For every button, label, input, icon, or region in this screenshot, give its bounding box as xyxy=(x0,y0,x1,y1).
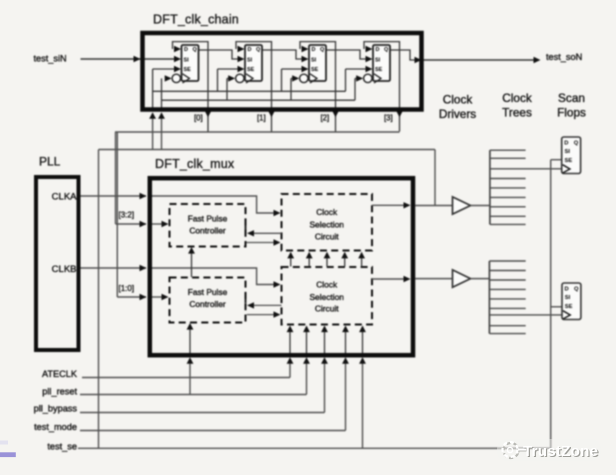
flip-flop U4 D-loop wire xyxy=(364,42,400,50)
wire test_siN input xyxy=(81,58,179,60)
wire SE feed to U3 xyxy=(281,69,283,91)
wire pll_reset riser inside mux to FPC2 xyxy=(189,329,191,355)
wire tap [3] from Q4 xyxy=(399,50,401,132)
wire scan link Q1 to SI of U2 xyxy=(208,50,239,59)
wire CSC1 to FPC1 feedback xyxy=(252,232,282,234)
clock tree 2 spine xyxy=(488,261,490,334)
Clock Selection Circuit 1 box xyxy=(282,194,373,251)
wire test_mode riser into mux xyxy=(345,363,347,431)
wire CSC2 output xyxy=(372,278,405,280)
clock tree 1 spine xyxy=(489,150,491,224)
wire clock feed to U1 xyxy=(165,75,172,81)
flip-flop scan FF2 body xyxy=(562,283,581,320)
PLL box xyxy=(36,177,79,350)
flip-flop scan FF1 body xyxy=(562,137,581,174)
wire CLKB inside mux to CSC2 xyxy=(151,268,275,285)
wire tap rail [3:2] (y=132) xyxy=(115,131,400,133)
wire Q2 output xyxy=(262,49,272,51)
wire Q1 output xyxy=(199,49,209,51)
wire mux output 1 to driver xyxy=(415,205,453,207)
watermark TrustZone logo xyxy=(501,441,520,460)
wire FPC1 to CSC1 control xyxy=(246,242,274,244)
wire CLKA inside mux to CSC1 xyxy=(151,196,275,213)
wire FPC2 to FPC1 sync arrow xyxy=(191,253,193,278)
progress bar xyxy=(0,452,16,457)
wire Q4 output xyxy=(390,49,400,51)
wire test_mode xyxy=(80,430,346,432)
wire driver 2 to tree xyxy=(471,278,490,280)
wire SE distribution rail xyxy=(153,90,346,92)
chain box DFT_clk_chain xyxy=(143,33,422,110)
wire test_se riser to scan flops (x=550.7) xyxy=(550,160,552,449)
wire FPC2 to CSC2 control xyxy=(247,314,275,316)
wire clock riser inside chain (x=161.5) xyxy=(161,78,163,110)
wire riser to [1:0] mux input xyxy=(116,132,118,297)
wire pll_bypass riser into mux xyxy=(324,363,326,413)
wire clock into chain bottom (arrow) xyxy=(161,118,163,150)
flip-flop U3 body xyxy=(309,45,326,81)
buffer clock driver 1 xyxy=(453,197,471,214)
flip-flop U2 body xyxy=(245,45,262,81)
svg-text:TrustZone: TrustZone xyxy=(523,443,598,460)
wire SE feed to U4 xyxy=(345,69,347,91)
mux box DFT_clk_mux xyxy=(150,178,413,355)
wire SE feed to U1 xyxy=(153,68,175,70)
wire ATECLK riser into mux xyxy=(289,363,291,378)
wire bypass drop to clock driver (x=435) xyxy=(434,150,436,206)
Clock Selection Circuit 2 box xyxy=(282,267,373,325)
wire rail y=149.5 xyxy=(99,149,436,151)
wire driver 1 to tree xyxy=(471,205,490,207)
wire chain output to test_soN xyxy=(400,50,417,60)
clock tree 1 branches xyxy=(490,149,526,151)
wire pll_reset second riser xyxy=(189,363,191,395)
wire test_se into chain bottom (arrow) xyxy=(152,118,154,150)
wire Q3 output xyxy=(326,49,336,51)
wire CLKA to mux xyxy=(81,195,147,197)
wire scan link Q2 to SI of U3 xyxy=(272,50,303,59)
flip-flop U2 D-loop wire xyxy=(236,42,272,50)
wire [1:0] to FPC2 xyxy=(151,296,163,298)
wire SE feed to U2 xyxy=(217,69,219,91)
flip-flop U4 body xyxy=(373,45,390,81)
wire [1:0] into mux xyxy=(117,296,146,298)
wire mux output 2 to driver xyxy=(415,278,453,280)
wire test_se riser into mux xyxy=(362,363,364,448)
wire CSC2 to FPC2 feedback xyxy=(252,304,282,306)
wire CLKB to mux xyxy=(81,267,147,269)
buffer clock driver 2 xyxy=(453,270,471,287)
wire clock feed to U3 xyxy=(290,78,292,100)
flip-flop U1 body xyxy=(182,45,199,81)
Fast Pulse Controller 1 box xyxy=(170,204,246,247)
wire riser to [3:2] mux input xyxy=(115,132,117,224)
wires CSC2 to CSC1 arrows xyxy=(290,258,292,267)
wire CSC1 output xyxy=(372,204,405,206)
wire test_se xyxy=(78,447,551,449)
flip-flop U3 D-loop wire xyxy=(300,42,336,50)
flip-flop U1 D-loop wire xyxy=(173,42,209,50)
wire pll_bypass xyxy=(80,412,325,414)
wire [3:2] into mux xyxy=(116,223,147,225)
wire tap [2] from Q3 xyxy=(335,50,337,132)
wires control risers inside mux to CSC2 xyxy=(289,331,291,354)
clock tree 2 branches xyxy=(489,260,525,262)
wire SE into scan flop 1 xyxy=(551,159,562,161)
wire tap [0] from Q1 xyxy=(207,50,209,132)
watermark halo xyxy=(497,439,601,461)
wire SE riser inside chain (x=152.6) xyxy=(152,69,154,110)
wire pll_reset xyxy=(80,394,307,396)
wire test_se riser (x=98.5) xyxy=(98,150,100,449)
wire clock feed to U2 xyxy=(226,78,228,100)
wire [3:2] to FPC1 xyxy=(151,223,163,225)
wire clock distribution rail xyxy=(162,99,356,101)
wire scan link Q3 to SI of U4 xyxy=(336,50,367,59)
wire pll_reset riser into mux xyxy=(306,363,308,395)
wire ATECLK xyxy=(82,377,290,379)
wire tap [1] from Q2 xyxy=(271,50,273,132)
wire SE into scan flop 2 xyxy=(551,306,562,308)
Fast Pulse Controller 2 box xyxy=(170,278,246,323)
wire clock feed to U4 xyxy=(354,78,356,100)
